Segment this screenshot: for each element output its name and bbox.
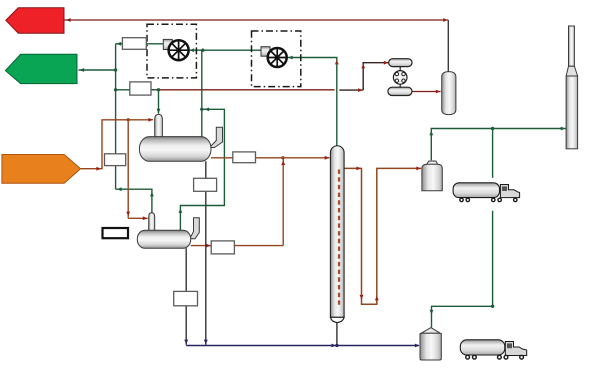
wire: navy rundown header to slop tank (186, 345, 419, 347)
red exit arrow (fuel gas) (6, 8, 64, 34)
valve box F (174, 291, 198, 305)
pump discharge pot (bottom stadium) (388, 87, 412, 95)
wire: drum2 vapour riser (180, 109, 224, 230)
orange inlet arrow (crude feed) (2, 155, 81, 184)
wire: fuel-gas header to red exit arrow (64, 19, 448, 21)
valve box D (233, 152, 256, 163)
tanker truck 2 (460, 340, 526, 360)
valve box G (194, 178, 217, 191)
wire: pump discharge into KO drum (412, 91, 441, 93)
arrowhead at KO drum riser corner (443, 18, 448, 22)
wire: truck loading / vapour line (492, 129, 494, 178)
separator drum 2 (137, 230, 190, 248)
flare stack (569, 26, 575, 66)
wire: header bottom run to drum2 neck (116, 189, 152, 212)
valve box E (211, 241, 234, 254)
wire: main green vertical header (115, 44, 117, 189)
dash-dot battery box around fan 2 (252, 31, 301, 87)
arrowhead into red exit arrow (66, 18, 71, 22)
separator drum 2 neck (149, 213, 155, 231)
fan/compressor 2 (268, 48, 287, 67)
valve box A (122, 38, 146, 50)
separator drum 2 vent pipe (190, 218, 200, 239)
pump suction pot (top stadium) (389, 59, 412, 67)
valve box C (105, 154, 126, 166)
rotary pump U1 (399, 67, 401, 71)
dash-dot battery box around fan 1 (147, 24, 196, 78)
wire: flare header (431, 129, 565, 161)
slop tank (bottom vessel) (421, 328, 441, 334)
distillation column C1 (330, 146, 344, 318)
KO drum (flare knockout) (442, 72, 456, 115)
wire: drum overhead liquid to pump suction (151, 89, 335, 91)
wire: header branch to box B (116, 89, 130, 91)
legend black box (103, 228, 129, 238)
wire: column bottom stub (336, 323, 338, 346)
wire: drum1 outlet via box D to column feed (191, 158, 330, 246)
wire: junction down to drum1 top (201, 50, 203, 136)
fan/compressor 1 inlet stub (163, 39, 172, 49)
fan/compressor 2 inlet stub (261, 47, 270, 57)
wire: column side-draw U loop to day tank (344, 168, 421, 304)
valve box B (130, 82, 151, 95)
fan/compressor 1 (169, 40, 189, 60)
separator drum 1 neck (155, 114, 163, 137)
wire: product line to green exit arrow (79, 69, 116, 71)
separator drum 1 vent pipe (210, 127, 223, 147)
wire: fan suction header between fans (189, 49, 262, 51)
wire: box B outlet down to drum1 neck (151, 90, 159, 114)
column internal packing (dashed) (338, 170, 340, 308)
green exit arrow (sales product) (5, 54, 77, 83)
wire: box A to fan1 inlet (146, 43, 163, 45)
separator drum 1 (139, 137, 211, 162)
tanker truck 1 (453, 183, 519, 203)
wire: box A discharge into header (116, 43, 123, 45)
day tank (middle right vessel) (426, 161, 438, 165)
wire: drum bottoms rundown verticals (185, 248, 187, 344)
wire: crude feed from orange arrow to both drum necks (81, 120, 153, 219)
wire: column overhead to fan2 (287, 58, 337, 146)
